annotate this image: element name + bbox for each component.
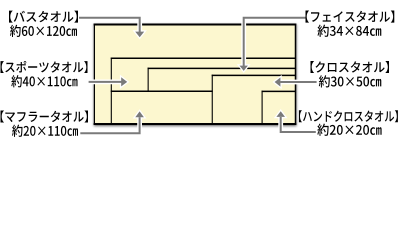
face towel left edge (hidden below muffler towel): [147, 68, 149, 92]
label text: bath towel line1: [9, 11, 78, 23]
label text: cloth towel line2: [319, 75, 382, 87]
hand cloth towel top edge (approx 20x20cm): [262, 90, 296, 92]
leader arrow: face towel label: [240, 18, 306, 71]
leader arrow: hand cloth towel label: [276, 111, 315, 132]
label text: sports towel line1: [1, 61, 88, 73]
label text: cloth towel line1: [311, 61, 390, 73]
leader arrow: cloth towel label: [275, 78, 317, 87]
sports towel top edge (approx 40x110cm): [111, 57, 296, 59]
label text: bath towel line2: [10, 25, 77, 37]
muffler towel top edge (approx 20x110cm, hidden behind cloth towel): [111, 90, 213, 92]
leader arrow: sports towel label: [89, 77, 128, 86]
label text: hand cloth towel line2: [317, 124, 381, 136]
bath towel border right: [295, 24, 297, 126]
label text: hand cloth towel line1: [299, 110, 398, 122]
cloth towel left edge: [211, 75, 213, 124]
label text: sports towel line2: [11, 75, 77, 87]
label text: muffler towel line1: [1, 111, 89, 123]
cloth towel top edge (approx 30x50cm): [212, 74, 296, 76]
leader arrow: bath towel label: [79, 18, 144, 38]
label text: face towel line1: [306, 11, 395, 23]
label text: face towel line2: [318, 25, 382, 37]
bath towel border top: [94, 24, 297, 26]
bath towel border bottom: [94, 123, 297, 125]
sports towel / muffler towel left edge: [110, 58, 112, 124]
leader arrow: muffler towel label: [80, 111, 144, 133]
bath towel border left: [93, 24, 95, 126]
hand cloth towel left edge: [261, 91, 263, 124]
bath towel rectangle fill (approx 60x120cm outer box): [94, 25, 295, 125]
face towel top edge (approx 34x84cm): [148, 67, 296, 69]
label text: muffler towel line2: [12, 125, 78, 137]
